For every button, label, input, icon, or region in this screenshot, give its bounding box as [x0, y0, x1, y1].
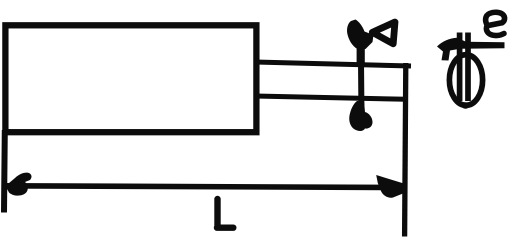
- dimension line L: [5, 186, 403, 188]
- hex-end symbol: bottom nub: [461, 102, 469, 108]
- tool body rectangle: [5, 25, 256, 132]
- thick stem between top arrowhead and shank: [357, 44, 365, 65]
- hex-end symbol: left vertical bar: [457, 33, 463, 102]
- hex-end symbol: circle: [449, 55, 482, 106]
- vertical dimension line (shank diameter): [358, 38, 365, 118]
- hex-end symbol: top bar with left arrow tip and barb: [437, 38, 505, 61]
- right arrowhead of L dimension: [376, 175, 403, 198]
- label L: [217, 199, 233, 228]
- left extension line: [1, 130, 8, 213]
- left arrowhead of L dimension: [6, 173, 32, 196]
- top arrowhead blob: [347, 20, 373, 50]
- right end / extension line: [405, 63, 406, 237]
- label e: [486, 12, 505, 35]
- shank top line: [255, 62, 411, 66]
- hex-end symbol: right vertical bar: [465, 33, 471, 102]
- triangle flag symbol: [372, 22, 395, 44]
- shank bottom line: [255, 96, 406, 99]
- bottom arrowhead blob: [349, 101, 372, 131]
